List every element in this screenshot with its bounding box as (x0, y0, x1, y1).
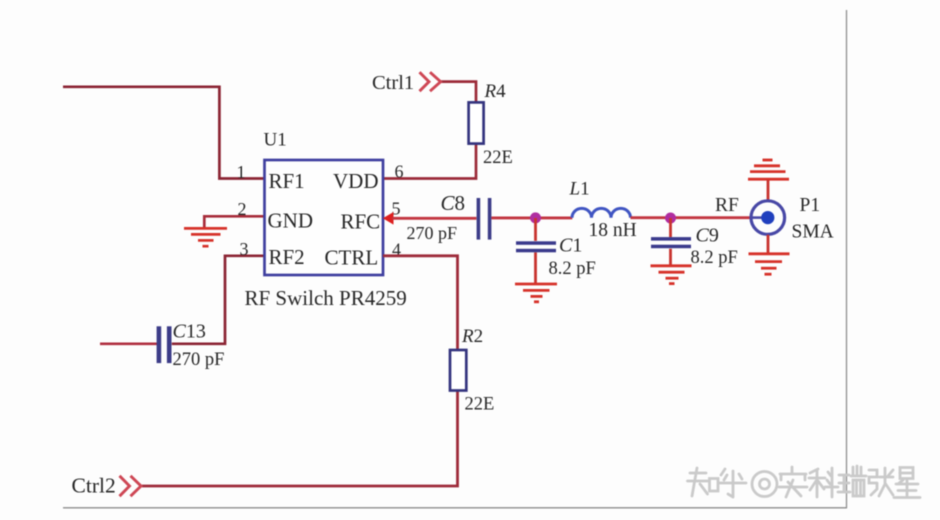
wire P1 top stub (767, 180, 770, 201)
svg-text:RF2: RF2 (269, 245, 305, 269)
svg-text:270 pF: 270 pF (173, 350, 225, 370)
svg-text:22E: 22E (483, 148, 513, 168)
ground P1 top (inverted) (748, 160, 789, 179)
resistor R2 (450, 350, 466, 391)
svg-text:3: 3 (240, 239, 249, 259)
junction node C1 (530, 212, 541, 223)
svg-text:U1: U1 (264, 130, 287, 151)
ic U1 box (265, 160, 384, 275)
ground C9 (651, 266, 692, 284)
svg-text:CTRL: CTRL (325, 246, 379, 270)
capacitor C9 (651, 237, 691, 248)
capacitor C8 (477, 198, 492, 240)
ground P1 bottom (749, 254, 790, 274)
svg-text:RF Swilch PR4259: RF Swilch PR4259 (245, 286, 407, 310)
svg-text:GND: GND (268, 209, 314, 233)
svg-text:L1: L1 (569, 179, 590, 200)
svg-text:RF1: RF1 (269, 169, 305, 193)
wire input net to RF1 (63, 87, 265, 179)
wire L1 to SMA (631, 216, 752, 219)
wire RF2 pin3 to C13 (172, 256, 265, 344)
watermark (decorative) (688, 466, 921, 498)
svg-text:8.2 pF: 8.2 pF (691, 248, 738, 268)
svg-text:6: 6 (395, 161, 404, 181)
svg-text:R2: R2 (461, 326, 483, 347)
svg-text:Ctrl1: Ctrl1 (372, 72, 414, 94)
ground C1 (515, 284, 557, 302)
svg-text:270 pF: 270 pF (407, 223, 458, 243)
wire C8 to L1 (491, 216, 572, 219)
svg-text:RF: RF (715, 195, 739, 216)
inductor L1 (572, 208, 631, 217)
wire RFC pin5 to C8 (392, 217, 476, 220)
svg-text:C1: C1 (559, 235, 582, 257)
arrow into RFC pin (383, 212, 394, 225)
capacitor C13 (157, 326, 172, 363)
capacitor C1 (516, 241, 556, 252)
resistor R4 (469, 102, 484, 143)
junction node C9 (665, 213, 676, 224)
wire VDD pin6 to R4 and Ctrl1 (383, 82, 476, 179)
wire CTRL pin4 to R2 to Ctrl2 (142, 256, 458, 486)
svg-text:C8: C8 (441, 191, 466, 215)
ground GND pin2 (184, 228, 227, 246)
svg-text:R4: R4 (484, 81, 507, 102)
svg-text:VDD: VDD (333, 169, 379, 193)
connector P1 SMA (751, 201, 785, 235)
svg-text:Ctrl2: Ctrl2 (72, 474, 116, 498)
wire GND pin2 (204, 216, 264, 227)
svg-text:P1: P1 (800, 195, 821, 216)
svg-text:1: 1 (237, 162, 246, 182)
wire C9 branch (669, 218, 672, 265)
svg-text:2: 2 (238, 199, 247, 219)
wire C1 branch (534, 218, 537, 283)
wire C13 left lead (100, 342, 157, 345)
wire P1 bottom stub (767, 235, 770, 254)
svg-text:C13: C13 (173, 320, 206, 342)
svg-text:8.2 pF: 8.2 pF (549, 259, 596, 279)
svg-text:22E: 22E (465, 395, 495, 415)
port Ctrl1 chevron (420, 72, 441, 91)
svg-text:SMA: SMA (792, 222, 834, 243)
svg-text:RFC: RFC (341, 210, 381, 234)
sheet border (decorative) (63, 10, 847, 508)
svg-text:18 nH: 18 nH (589, 220, 637, 241)
port Ctrl2 chevron (120, 476, 142, 496)
svg-text:C9: C9 (696, 225, 719, 247)
